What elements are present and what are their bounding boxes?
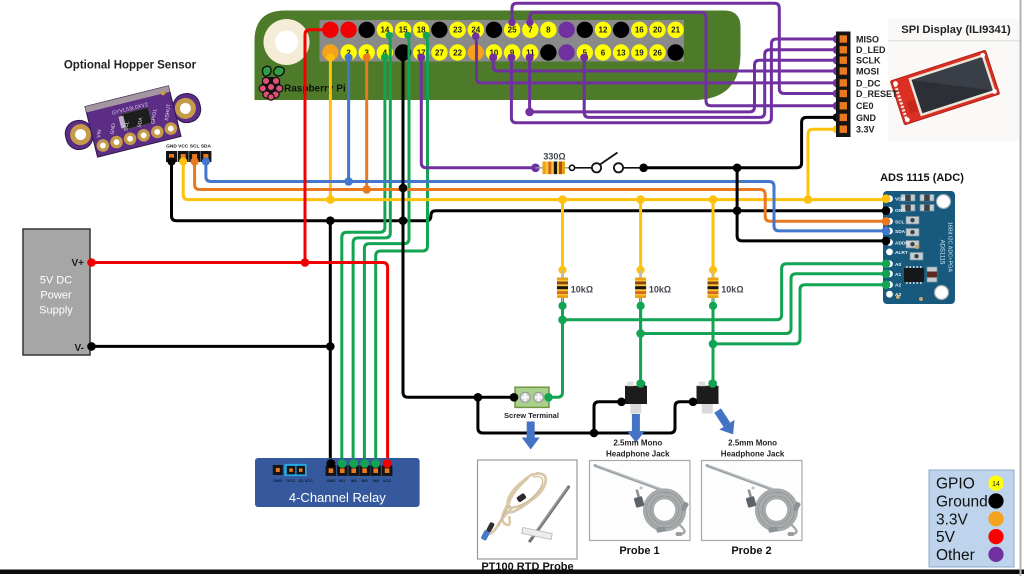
wire Pi GND pin down to screw terminal: [403, 56, 514, 397]
svg-text:26: 26: [653, 48, 662, 57]
node end GPIO5 pin: [580, 54, 588, 62]
Probe 1 photo box: [590, 461, 691, 541]
2.5mm mono headphone jack J1: [625, 382, 647, 414]
svg-text:CE0: CE0: [856, 101, 874, 111]
node end ADS A2: [882, 280, 891, 289]
wire switch output to SPI GND: [644, 117, 836, 167]
node end GPIO2 pin: [345, 54, 353, 62]
ADS1115 pin VDD: [886, 195, 906, 202]
svg-text:GND: GND: [856, 113, 877, 123]
Pi pin GPIO9 (bottom row 11): [504, 44, 520, 60]
svg-text:ADS1115: ADS1115: [939, 240, 945, 265]
svg-text:SCL: SCL: [190, 144, 200, 150]
svg-text:Other: Other: [936, 547, 975, 564]
Pi pin GPIO5 (bottom row 15): [577, 44, 593, 60]
label jack1: [606, 439, 670, 459]
Pi pin 3V3 (bottom row 9): [468, 44, 484, 60]
Pi pin GPIO27 (bottom row 7): [431, 44, 447, 60]
svg-text:Probe 2: Probe 2: [731, 545, 771, 557]
node end SPI D_DC: [833, 79, 842, 88]
wire screw terminal to ADS A0: [549, 306, 563, 398]
arrow to PT100 probe: [522, 422, 540, 450]
label jack2: [721, 439, 785, 459]
SPI display header connector: [836, 32, 851, 138]
connector pin label SDA: [201, 144, 212, 150]
svg-text:22: 22: [453, 48, 462, 57]
Pi pin ID (bottom row 14): [558, 44, 574, 60]
wire SCL net hopper to ADS: [195, 158, 886, 221]
svg-text:2.5mm Mono: 2.5mm Mono: [728, 439, 777, 448]
Pi pin ID (top row 14): [558, 22, 574, 38]
node end GPIO10 pin: [489, 54, 497, 62]
svg-text:2.5mm Mono: 2.5mm Mono: [613, 439, 662, 448]
wire power V- to relay GND vertical: [92, 345, 331, 348]
wire GPIO25 to D_RESET: [512, 3, 836, 93]
label PT100 RTD Probe: [481, 561, 573, 573]
node end relay IN3: [360, 459, 369, 468]
SPI pin label GND: [856, 113, 877, 123]
wire Pi 5V pin to V+ rail: [305, 30, 328, 263]
svg-text:Supply: Supply: [39, 305, 73, 317]
node end SPI SCLK: [833, 56, 842, 65]
svg-text:20: 20: [653, 26, 662, 35]
5V DC power supply PS1: [23, 229, 90, 355]
node end ADS SCL: [882, 217, 891, 226]
node junction 5V: [301, 258, 310, 267]
svg-text:3.3V: 3.3V: [856, 125, 875, 135]
Pi pin GND (top row 10): [486, 22, 502, 38]
node end SPI MOSI: [833, 67, 842, 76]
wire GPIO7 to CE0: [530, 12, 836, 105]
ADS1115 pin A2: [886, 281, 901, 288]
node end jack2 green: [708, 379, 717, 388]
node junction GND ADS: [733, 206, 742, 215]
svg-text:GND: GND: [895, 208, 906, 214]
node end 3.3V pin: [326, 54, 334, 62]
2.5mm mono headphone jack J2: [697, 382, 719, 414]
Pi pin GPIO16 (top row 18): [631, 22, 647, 38]
label 10kohm: [649, 285, 671, 295]
svg-text:IN2: IN2: [351, 478, 358, 483]
ADS1115 pin ALRT: [886, 249, 908, 256]
node junction 3.3V rail x562: [558, 195, 567, 204]
svg-text:V+: V+: [71, 258, 84, 269]
svg-text:GND: GND: [166, 144, 177, 150]
SPI pin label D_RESET: [856, 89, 898, 99]
wire R3 bottom to A2 node: [712, 299, 715, 344]
wire A0 branch to ADS: [563, 264, 887, 320]
node junction GND jack1 branch: [590, 429, 599, 438]
label Screw Terminal: [504, 411, 559, 420]
node end SPI 3.3V: [833, 125, 842, 134]
node end GPIO9 pin: [507, 54, 515, 62]
svg-text:A0: A0: [895, 262, 901, 268]
node end 5V pin: [323, 26, 332, 35]
wire R1 bottom to A0 node: [561, 299, 564, 320]
node end screw terminal left: [510, 393, 519, 402]
wire GND vertical to ADS ADDR: [737, 168, 886, 241]
resistor R2 10kohm: [635, 266, 646, 310]
switch S1: [569, 153, 641, 173]
wire GPIO24 to D_DC: [476, 36, 836, 83]
svg-text:Power: Power: [40, 290, 72, 302]
wire GPIO4 to relay IN1: [342, 56, 385, 464]
svg-text:10kΩ: 10kΩ: [649, 285, 671, 295]
SPI pin label MISO: [856, 34, 879, 44]
svg-text:Optional Hopper Sensor: Optional Hopper Sensor: [64, 60, 197, 72]
Pi pin 5V (top row 2): [340, 22, 356, 38]
node end GND pin: [399, 54, 407, 62]
4-channel relay module: [255, 458, 420, 507]
node end screw terminal right: [544, 393, 553, 402]
svg-text:D_DC: D_DC: [856, 78, 881, 88]
Pi pin GPIO23 (top row 8): [449, 22, 465, 38]
node end GPIO15 pin: [404, 32, 411, 39]
SPI pin label CE0: [856, 101, 874, 111]
right edge line: [1020, 0, 1022, 576]
Pi pin GPIO6 (bottom row 16): [595, 44, 611, 60]
svg-text:4-Channel Relay: 4-Channel Relay: [289, 490, 386, 505]
ADS1115 pin GND: [886, 207, 906, 214]
wire R2 bottom to A1 node: [639, 299, 642, 334]
node end ADS VDD: [882, 194, 891, 203]
Pi pin GPIO11 (bottom row 12): [522, 44, 538, 60]
node end hopper SCL: [191, 157, 199, 165]
wire GND branch to jack1: [594, 402, 622, 433]
Pi pin GPIO2 (bottom row 2): [340, 44, 356, 60]
connector pin label GND: [166, 144, 177, 150]
svg-text:VIN: VIN: [96, 129, 103, 138]
node end ADS GND: [882, 206, 891, 215]
Pi pin GPIO4 (bottom row 4): [377, 44, 393, 60]
Pi pin GPIO26 (bottom row 19): [649, 44, 665, 60]
ADS1115 module U2: [883, 191, 955, 304]
node terminal V+: [87, 258, 96, 267]
hopper sensor connector J1: [166, 151, 211, 162]
svg-text:12: 12: [599, 26, 608, 35]
ADS1115 pin SDA: [886, 228, 906, 235]
node junction GND screw branch: [474, 393, 483, 402]
title Optional Hopper Sensor: [64, 60, 197, 72]
label Probe 1: [619, 545, 659, 557]
wire 10k resistor top lead x713: [712, 200, 715, 279]
svg-text:VCC: VCC: [383, 478, 392, 483]
node junction SDA/GPIO2: [344, 177, 353, 186]
svg-text:23: 23: [453, 26, 462, 35]
display photo background tint: [888, 18, 1021, 142]
svg-text:IN4: IN4: [373, 478, 380, 483]
Pi pin GPIO24 (top row 9): [468, 22, 484, 38]
svg-text:VCC: VCC: [178, 144, 189, 150]
legend box: [929, 470, 1014, 567]
svg-text:6: 6: [601, 48, 606, 57]
Raspberry Pi logo: [259, 66, 284, 100]
node end GPIO4 pin: [381, 54, 389, 62]
svg-text:5V DC: 5V DC: [40, 275, 72, 287]
resistor R1 10kohm: [557, 266, 568, 310]
svg-text:Ground: Ground: [936, 494, 988, 511]
svg-text:SCL: SCL: [895, 219, 905, 225]
node end SPI D_RESET: [833, 89, 842, 98]
node end GPIO11 pin: [526, 54, 534, 62]
Raspberry Pi text: [284, 84, 346, 95]
wire GPIO15 to relay IN3: [364, 35, 409, 464]
SPI pin label D_LED: [856, 45, 886, 55]
svg-text:V-: V-: [75, 343, 84, 354]
svg-text:16Bit I2C ADC+PGA: 16Bit I2C ADC+PGA: [947, 222, 953, 273]
svg-text:Headphone Jack: Headphone Jack: [606, 450, 670, 459]
node end relay GND: [327, 459, 336, 468]
svg-text:VCC: VCC: [287, 478, 296, 483]
svg-text:27: 27: [435, 48, 444, 57]
node end SPI GND: [833, 113, 842, 122]
wire GPIO11 to SCLK: [530, 58, 836, 112]
node end hopper SDA: [202, 157, 210, 165]
SPI pin label MOSI: [856, 66, 879, 76]
node junction A1: [636, 329, 645, 338]
wire Pi GPIO3 to SCL rail: [365, 56, 368, 190]
wire GND hopper to ADS GND: [172, 158, 887, 221]
node end jack1 green: [636, 379, 645, 388]
svg-text:Probe 1: Probe 1: [619, 545, 659, 557]
Pi pin GPIO13 (bottom row 17): [613, 44, 629, 60]
Pi pin GPIO8 (top row 13): [540, 22, 556, 38]
node junction GND relay vert: [326, 216, 335, 225]
ADS1115 pin ADDR: [886, 239, 909, 246]
node end GPIO14 pin: [386, 32, 393, 39]
svg-text:5V: 5V: [936, 529, 956, 546]
node junction GND V-: [326, 342, 335, 351]
resistor R3 10kohm: [708, 266, 719, 310]
Pi pin GND (top row 3): [359, 22, 375, 38]
node end ADS A1: [882, 270, 891, 279]
node junction switch/ADDR: [733, 164, 742, 173]
svg-text:16: 16: [635, 26, 644, 35]
svg-text:14: 14: [992, 481, 1000, 488]
node junction 3.3V rail x808: [804, 195, 813, 204]
node junction A2: [709, 340, 718, 349]
node end GPIO3 pin: [363, 54, 371, 62]
wire Pi GPIO2 to SDA rail: [347, 56, 350, 182]
svg-text:IN3: IN3: [361, 478, 368, 483]
PT100 RTD probe photo box: [478, 460, 578, 559]
node end jack1 black: [617, 398, 626, 407]
svg-text:IN1: IN1: [339, 478, 346, 483]
wire A2 branch to ADS: [713, 285, 886, 344]
svg-text:25: 25: [508, 26, 517, 35]
svg-text:GPIO: GPIO: [936, 476, 975, 493]
svg-text:A2: A2: [895, 283, 901, 289]
node junction 3.3V rail x330: [326, 195, 335, 204]
Pi pin GPIO10 (bottom row 10): [486, 44, 502, 60]
node end jack2 black: [689, 398, 698, 407]
node junction SCL/GPIO3: [362, 185, 371, 194]
Pi pin GND (top row 15): [577, 22, 593, 38]
node end ADS ADDR: [882, 237, 891, 246]
node end SPI MISO: [833, 35, 842, 44]
Pi pin GPIO14 (top row 4): [377, 22, 393, 38]
node end ADS A0: [882, 260, 891, 269]
ADS1115 pin A0: [886, 260, 901, 267]
node end GPIO18 pin: [423, 32, 430, 39]
wire GPIO17 to 330R: [421, 56, 536, 168]
node end ADS SDA: [882, 227, 891, 236]
node bend GPIO11 wire: [525, 108, 534, 117]
node junction A0: [558, 316, 567, 325]
wire GPIO18 to relay IN4: [376, 35, 428, 464]
node junction switch out: [639, 164, 648, 173]
Pi pin GPIO18 (top row 6): [413, 22, 429, 38]
ADS1115 pin A1: [886, 270, 901, 277]
svg-text:Screw Terminal: Screw Terminal: [504, 411, 559, 420]
wire GND branch to jacks: [478, 397, 694, 433]
svg-text:3.3V: 3.3V: [936, 511, 969, 528]
node junction GND Pi vert: [399, 216, 408, 225]
Pi pin GPIO12 (top row 16): [595, 22, 611, 38]
svg-text:A3: A3: [895, 292, 901, 298]
Pi pin GPIO22 (bottom row 8): [449, 44, 465, 60]
wire GPIO14 to relay IN2: [353, 35, 390, 464]
svg-text:SCLK: SCLK: [856, 56, 881, 66]
svg-text:13: 13: [617, 48, 626, 57]
Pi pin GPIO19 (bottom row 18): [631, 44, 647, 60]
GPIO header strip: [320, 20, 685, 62]
wire GPIO10 to MOSI: [493, 58, 836, 71]
SPI pin label SCLK: [856, 56, 881, 66]
Pi pin GND (top row 7): [431, 22, 447, 38]
wire GPIO9 to MISO: [511, 39, 836, 123]
arrow jack1: [627, 414, 645, 443]
Pi pin GPIO17 (bottom row 6): [413, 44, 429, 60]
svg-text:10kΩ: 10kΩ: [571, 285, 593, 295]
label 10kohm: [571, 285, 593, 295]
Pi pin GPIO25 (top row 11): [504, 22, 520, 38]
svg-text:SPI Display (ILI9341): SPI Display (ILI9341): [901, 24, 1011, 36]
svg-text:JD-VCC: JD-VCC: [298, 478, 313, 483]
Pi pin GPIO7 (top row 12): [522, 22, 538, 38]
Pi pin GPIO15 (top row 5): [395, 22, 411, 38]
wire SDA net hopper to ADS: [206, 158, 886, 231]
node end SPI D_LED: [833, 46, 842, 55]
svg-text:ALRT: ALRT: [895, 250, 908, 256]
Pi pin 3V3 (bottom row 1): [322, 44, 338, 60]
svg-text:ADS 1115 (ADC): ADS 1115 (ADC): [880, 172, 964, 184]
Raspberry Pi board U1: [255, 11, 741, 101]
svg-text:21: 21: [671, 26, 680, 35]
Pi pin GPIO21 (top row 20): [667, 22, 683, 38]
ADS1115 pin A3: [886, 291, 901, 298]
svg-text:D_RESET: D_RESET: [856, 89, 898, 99]
wire SPI 3.3V to rail: [808, 129, 836, 199]
node end hopper GND: [167, 157, 175, 165]
wire 10k resistor top lead x562: [561, 200, 564, 279]
screw terminal block: [515, 387, 549, 407]
wire 10k resistor top lead x640: [639, 200, 642, 279]
label 10kohm: [721, 285, 743, 295]
SPI pin label D_DC: [856, 78, 881, 88]
svg-text:A1: A1: [895, 272, 901, 278]
connector pin label SCL: [190, 144, 200, 150]
SPI display module photo: [890, 50, 999, 125]
wire 3.3V rail hopper VCC to ADS VDD: [183, 158, 886, 200]
node end relay IN1: [338, 459, 347, 468]
node end GPIO25 pin: [508, 19, 516, 27]
svg-text:7: 7: [528, 26, 533, 35]
svg-text:MISO: MISO: [856, 34, 879, 44]
wire relay GND vertical: [329, 221, 332, 464]
node end relay IN4: [371, 459, 380, 468]
node end GPIO7 pin: [526, 19, 534, 27]
Pi mounting hole: [264, 19, 310, 65]
Pi pin GND (bottom row 20): [667, 44, 683, 60]
node terminal V-: [87, 342, 96, 351]
svg-text:VDD: VDD: [895, 197, 906, 203]
node end relay VCC: [383, 459, 392, 468]
svg-text:Raspberry Pi: Raspberry Pi: [284, 84, 346, 95]
svg-text:Headphone Jack: Headphone Jack: [721, 450, 785, 459]
label 330 ohm: [543, 152, 565, 162]
wire GPIO5 to D_LED: [584, 50, 836, 118]
title ADS 1115 (ADC): [880, 172, 964, 184]
connector pin label VCC: [178, 144, 189, 150]
node end SPI CE0: [833, 102, 842, 111]
svg-text:SDA: SDA: [201, 144, 212, 150]
svg-text:8: 8: [546, 26, 551, 35]
svg-text:SDA: SDA: [895, 229, 906, 235]
Pi pin GND (top row 17): [613, 22, 629, 38]
wire jack2 to ADS A2: [712, 306, 715, 384]
title SPI Display: [901, 24, 1011, 36]
SPI pin label 3.3V: [856, 125, 875, 135]
wire A1 branch to ADS: [641, 274, 886, 334]
node end relay IN2: [349, 459, 358, 468]
wire jack1 to ADS A1: [639, 306, 642, 384]
bottom slide bar: [0, 570, 1024, 575]
arrow jack2: [710, 406, 741, 440]
ADS1115 pin SCL: [886, 218, 905, 225]
svg-text:GND: GND: [326, 478, 335, 483]
resistor R4 330ohm: [531, 162, 570, 175]
svg-text:D_LED: D_LED: [856, 45, 886, 55]
wire power V+ to relay VCC: [92, 263, 388, 464]
separator line under SPI title: [888, 40, 1022, 41]
node junction 3.3V rail x713: [709, 195, 718, 204]
Hopper sensor module (VL53L0X): [60, 80, 206, 164]
label Probe 2: [731, 545, 771, 557]
svg-text:19: 19: [635, 48, 644, 57]
svg-text:10kΩ: 10kΩ: [721, 285, 743, 295]
node end hopper VCC: [179, 157, 187, 165]
node bend GND Pi wire: [399, 184, 408, 193]
Pi pin 5V (top row 1): [322, 22, 338, 38]
Probe 2 photo box: [702, 461, 803, 541]
wire Pi 3.3V pin to rail: [329, 56, 332, 200]
Pi pin GND (bottom row 5): [395, 44, 411, 60]
Pi pin GPIO20 (top row 19): [649, 22, 665, 38]
Pi pin GPIO3 (bottom row 3): [359, 44, 375, 60]
svg-text:MOSI: MOSI: [856, 66, 879, 76]
node end GPIO24 pin: [472, 32, 480, 40]
node end GPIO17 pin: [417, 54, 425, 62]
node junction 3.3V rail x640: [636, 195, 645, 204]
svg-text:330Ω: 330Ω: [543, 152, 565, 162]
svg-text:GND: GND: [273, 478, 282, 483]
Pi pin GND (bottom row 13): [540, 44, 556, 60]
svg-text:ADDR: ADDR: [895, 240, 909, 246]
